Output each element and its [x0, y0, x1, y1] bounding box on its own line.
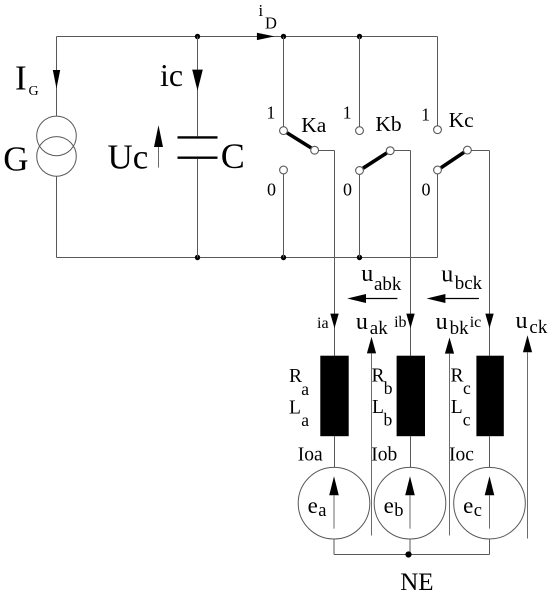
wire capacitor bottom: [197, 159, 199, 258]
voltage arrow u_ak: [367, 337, 376, 536]
svg-text:L: L: [451, 397, 463, 418]
label eb: [384, 493, 404, 521]
wire Kc branch from top bus: [437, 37, 439, 126]
svg-text:u: u: [361, 261, 373, 287]
svg-text:e: e: [384, 493, 394, 518]
wire top bus: [57, 36, 438, 38]
wire bottom bus: [57, 257, 438, 259]
svg-text:a: a: [318, 501, 326, 521]
source ea circle: [298, 467, 370, 539]
svg-text:Kb: Kb: [375, 112, 401, 136]
wire left branch upper: [56, 37, 58, 117]
wire source ea to NE bus: [333, 539, 335, 555]
svg-text:0: 0: [267, 180, 276, 200]
switch Kc terminal 0: [434, 166, 442, 174]
label u_bk: [436, 309, 470, 339]
current arrow ic phase: [485, 314, 493, 329]
voltage arrow Uc: [154, 125, 163, 167]
svg-text:Uc: Uc: [108, 137, 149, 176]
node dot bottom Ka junction: [281, 255, 286, 260]
wire source eb to NE bus: [409, 539, 411, 555]
svg-text:L: L: [289, 397, 301, 418]
node NE dot: [405, 551, 411, 557]
label Ra: [289, 366, 309, 399]
wire phase a vertical: [334, 151, 336, 356]
svg-text:Ioc: Ioc: [449, 445, 474, 466]
switch Kb common terminal: [386, 147, 394, 155]
svg-text:0: 0: [422, 180, 431, 200]
svg-text:a: a: [301, 410, 309, 430]
label Rc: [451, 365, 472, 398]
capacitor C bottom plate: [178, 156, 218, 158]
label u_abk: [361, 261, 402, 295]
switch Ka common terminal: [311, 146, 319, 154]
node dot bottom Kb junction: [357, 255, 362, 260]
svg-text:bck: bck: [455, 273, 483, 294]
wire Kb branch from top bus: [359, 37, 361, 127]
wire load b to source eb: [410, 436, 412, 467]
svg-text:Kc: Kc: [449, 108, 474, 132]
switch Ka lever: [287, 133, 311, 148]
svg-text:c: c: [474, 501, 482, 521]
svg-text:ia: ia: [317, 315, 329, 332]
wire Kc common to phase c line: [471, 150, 489, 152]
svg-text:ck: ck: [529, 317, 547, 338]
svg-text:bk: bk: [450, 318, 470, 339]
svg-text:c: c: [463, 378, 471, 398]
wire Kc terminal 0 to bottom bus: [437, 174, 439, 258]
wire Ka common to phase a line: [319, 150, 335, 152]
label Lb: [372, 397, 393, 430]
svg-text:1: 1: [421, 104, 430, 124]
svg-text:b: b: [384, 410, 393, 430]
node dot top capacitor junction: [195, 34, 200, 39]
voltage arrow u_abk: [347, 294, 397, 303]
svg-text:e: e: [308, 493, 318, 518]
node dot bottom capacitor junction: [195, 255, 200, 260]
switch Kc common terminal: [464, 146, 472, 154]
wire Kb common to phase b line: [394, 150, 410, 152]
label u_bck: [441, 261, 482, 294]
switch Ka terminal 0: [280, 166, 288, 174]
node dot top Ka junction: [281, 34, 286, 39]
svg-text:D: D: [265, 13, 277, 32]
wire capacitor top: [197, 37, 199, 137]
wire load c to source ec: [489, 436, 491, 467]
current arrow ic: [192, 70, 203, 91]
svg-text:Ka: Ka: [301, 113, 327, 137]
current arrow ib: [406, 314, 414, 329]
svg-text:1: 1: [343, 102, 352, 122]
svg-text:R: R: [451, 365, 464, 386]
label iD: [259, 1, 278, 32]
voltage arrow u_ck: [523, 335, 532, 538]
load resistor-inductor RaLa: [320, 356, 348, 437]
switch Kc terminal 1: [434, 126, 442, 134]
current arrow iD: [257, 33, 275, 40]
label Rb: [372, 365, 393, 398]
label ea: [308, 493, 327, 521]
label u_ak: [356, 309, 388, 339]
capacitor C top plate: [178, 136, 218, 138]
svg-text:R: R: [289, 366, 302, 387]
wire phase c vertical: [489, 151, 491, 356]
source eb arrow: [405, 476, 415, 528]
svg-text:i: i: [259, 1, 264, 20]
switch Kc lever: [441, 152, 464, 167]
svg-text:b: b: [384, 378, 393, 398]
switch Kb terminal 0: [356, 167, 364, 175]
source ec circle: [454, 467, 526, 539]
wire NE bus: [334, 554, 490, 556]
svg-text:u: u: [441, 261, 453, 287]
current source G circle upper: [37, 116, 77, 156]
wire load a to source ea: [334, 436, 336, 467]
svg-text:R: R: [372, 365, 385, 386]
source ec arrow: [485, 476, 495, 528]
switch Ka terminal 1: [280, 127, 288, 135]
svg-text:abk: abk: [374, 274, 402, 295]
load resistor-inductor RbLb: [397, 356, 425, 437]
source eb circle: [374, 467, 446, 539]
switch Kb lever: [363, 153, 387, 168]
svg-text:1: 1: [267, 102, 276, 122]
svg-text:a: a: [301, 379, 309, 399]
svg-text:Ioa: Ioa: [298, 445, 323, 466]
current arrow IG: [53, 70, 60, 89]
svg-text:L: L: [372, 397, 384, 418]
node dot top Kb junction: [357, 34, 362, 39]
svg-text:NE: NE: [400, 569, 433, 594]
wire left branch lower: [56, 176, 58, 257]
wire Kb terminal 0 to bottom bus: [359, 174, 361, 257]
svg-text:u: u: [356, 309, 368, 335]
svg-text:ak: ak: [370, 318, 388, 339]
svg-text:Iob: Iob: [371, 445, 397, 466]
svg-text:ic: ic: [470, 314, 482, 331]
svg-text:e: e: [463, 493, 473, 518]
wire phase b vertical: [410, 151, 412, 356]
label IG: [15, 59, 39, 100]
svg-text:C: C: [221, 136, 245, 176]
wire Ka branch from top bus: [283, 37, 285, 127]
wire source ec to NE bus: [489, 539, 491, 555]
svg-text:c: c: [463, 410, 471, 430]
label La: [289, 397, 309, 429]
wire Ka terminal 0 to bottom bus: [283, 174, 285, 258]
svg-text:b: b: [394, 501, 403, 521]
label u_ck: [516, 308, 548, 338]
label ec: [463, 493, 482, 521]
current source G circle lower: [37, 137, 77, 177]
switch Kb terminal 1: [356, 127, 364, 135]
svg-text:u: u: [436, 309, 448, 335]
svg-text:0: 0: [343, 180, 352, 200]
svg-text:ib: ib: [394, 314, 406, 331]
source ea arrow: [329, 476, 339, 528]
svg-text:G: G: [3, 140, 28, 179]
current arrow ia: [330, 314, 338, 329]
voltage arrow u_bck: [427, 294, 479, 303]
svg-text:I: I: [15, 59, 27, 98]
voltage arrow u_bk: [445, 338, 454, 536]
svg-text:ic: ic: [160, 57, 183, 93]
svg-text:G: G: [29, 84, 39, 99]
load resistor-inductor RcLc: [476, 356, 503, 437]
svg-text:u: u: [516, 308, 528, 334]
label Lc: [451, 397, 471, 430]
